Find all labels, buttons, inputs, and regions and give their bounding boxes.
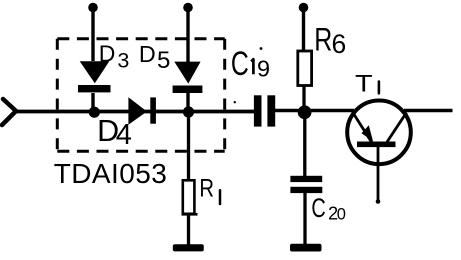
dashed box: bottom edge [57, 150, 224, 153]
wire: input to C19 left plate [16, 110, 255, 114]
svg-text:0: 0 [337, 206, 346, 224]
wire: D5 junction down to R1 [187, 111, 190, 180]
input connector chevron [2, 99, 16, 125]
svg-text:6: 6 [332, 29, 347, 59]
capacitor C20 top plate [290, 176, 322, 182]
wire: R6 to node [302, 86, 305, 112]
wire: D5 to main line [186, 93, 189, 112]
wire: R1 to ground [187, 214, 190, 247]
wire: C19 to transistor [275, 109, 354, 113]
node dot C19/R6/C20 [298, 105, 312, 119]
supply dot above D3 [88, 3, 98, 13]
dashed box: right edge [223, 39, 226, 152]
svg-text:3: 3 [117, 49, 129, 73]
wire: transistor to right edge [404, 109, 453, 113]
transistor T1 collector line [387, 113, 407, 143]
resistor R1 [183, 180, 195, 214]
speck [234, 101, 236, 103]
junction dot at D3 [89, 107, 100, 118]
svg-text:C: C [231, 45, 249, 83]
base lead end blob [376, 199, 381, 204]
svg-text:R: R [314, 23, 332, 59]
diode D4 cathode bar [150, 97, 156, 123]
transistor T1 emitter arrowhead [362, 125, 374, 141]
label R1 [199, 173, 214, 202]
wire: D3 to main line [91, 93, 94, 112]
svg-text:R: R [199, 173, 214, 202]
dashed box TDA1053 outline: top edge [57, 37, 224, 40]
supply dot above D5 [183, 3, 193, 13]
transistor T1 emitter line [353, 112, 372, 142]
resistor R6 [298, 51, 312, 86]
diode D3 cathode bar [78, 85, 111, 92]
wire: dot to R6 [302, 8, 305, 52]
svg-text:C: C [311, 193, 325, 222]
dashed box: left edge [56, 39, 59, 152]
wire: C20 to ground [303, 193, 306, 247]
wire: node down to C20 [303, 110, 306, 177]
svg-text:4: 4 [116, 119, 132, 151]
diode D3 triangle [80, 61, 110, 83]
capacitor C19 left plate [254, 95, 262, 126]
svg-text:5: 5 [157, 47, 170, 74]
resistor R1 bottom tick [182, 213, 198, 216]
wire: dot to D3 [91, 8, 94, 62]
speck above C19 [260, 47, 263, 50]
diode D5 triangle [174, 62, 200, 84]
svg-text:9: 9 [257, 56, 270, 82]
label C20 [311, 193, 325, 222]
svg-text:D: D [99, 41, 116, 67]
junction dot at D5 [183, 106, 194, 117]
capacitor C20 bottom plate [290, 187, 322, 193]
transistor T1 base bar [357, 142, 396, 148]
ground bar below R1 [173, 244, 204, 251]
capacitor C19 right plate [267, 95, 275, 126]
supply dot above R6 [299, 3, 309, 13]
label T1 [355, 70, 373, 97]
label R6 [314, 23, 332, 59]
diode D4 triangle [128, 97, 147, 125]
svg-text:T: T [355, 70, 373, 97]
svg-text:TDAI053: TDAI053 [54, 158, 168, 189]
ground bar below C20 [290, 244, 322, 252]
transistor T1 base lead [377, 147, 380, 203]
wire: dot to D5 [186, 8, 189, 64]
svg-text:D: D [139, 41, 156, 67]
transistor T1 circle [347, 101, 411, 165]
diode D5 cathode bar [173, 86, 203, 94]
label C19 [231, 45, 249, 83]
